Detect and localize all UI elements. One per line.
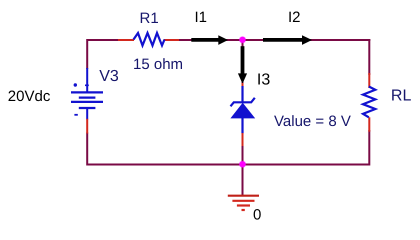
svg-text:15 ohm: 15 ohm: [133, 56, 183, 73]
svg-text:RL: RL: [391, 88, 412, 105]
junction node top: [239, 36, 246, 43]
wire left vertical lower: [86, 133, 88, 166]
junction node bottom: [239, 161, 246, 168]
zener diode D1 anode triangle: [230, 103, 255, 119]
wire right vertical lower: [368, 130, 370, 166]
voltage source V3 plus mark: [74, 83, 89, 86]
wire bottom segment: [87, 164, 370, 166]
svg-text:I1: I1: [195, 9, 208, 26]
voltage source V3 pin bottom: [86, 119, 88, 134]
resistor R1 pin 2: [164, 39, 179, 41]
wire ground stem: [242, 164, 244, 195]
voltage source V3 plate 3: [71, 101, 103, 103]
svg-text:I2: I2: [288, 9, 301, 26]
voltage source V3 lead bottom: [86, 108, 88, 120]
svg-text:Value = 8 V: Value = 8 V: [274, 113, 351, 130]
wire middle branch lower: [242, 145, 244, 165]
wire middle branch upper: [242, 40, 244, 84]
wire right vertical upper: [368, 39, 370, 75]
voltage source V3 plate 4: [79, 107, 96, 109]
voltage source V3 minus mark: [74, 114, 77, 116]
svg-text:0: 0: [253, 207, 261, 224]
svg-text:R1: R1: [140, 10, 159, 27]
ground symbol: [228, 196, 259, 210]
svg-text:I3: I3: [257, 72, 270, 89]
resistor R1 pin 1: [118, 39, 134, 41]
zener diode D1 pin top: [242, 83, 244, 87]
svg-text:20Vdc: 20Vdc: [8, 88, 51, 105]
current arrow I2: [263, 35, 312, 45]
current arrow I3: [238, 46, 247, 84]
wire top-left segment: [87, 39, 122, 41]
svg-text:V3: V3: [99, 68, 119, 85]
wire top-right segment: [178, 39, 370, 41]
resistor RL pin 2: [368, 117, 370, 131]
resistor RL pin 1: [368, 73, 370, 88]
wire left vertical upper: [86, 39, 88, 69]
zener diode D1 lead bottom: [241, 118, 243, 134]
resistor R1 body: [134, 33, 165, 46]
zener diode D1 lead top: [241, 86, 243, 103]
voltage source V3 lead top: [86, 68, 88, 92]
voltage source V3 plate 1: [71, 91, 103, 93]
zener diode D1 cathode bar: [231, 98, 255, 107]
resistor RL body: [363, 87, 375, 118]
voltage source V3 plate 2: [79, 96, 96, 98]
current arrow I1: [191, 35, 228, 45]
zener diode D1 pin bottom: [242, 133, 244, 146]
